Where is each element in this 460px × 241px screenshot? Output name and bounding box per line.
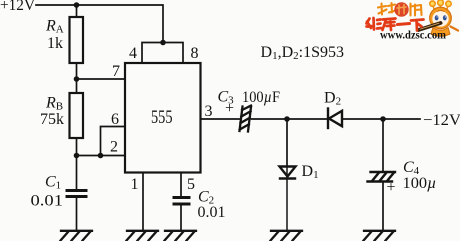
- node D: pin2/pin6 junction: [98, 153, 104, 159]
- wire pin 7: [77, 78, 126, 80]
- svg-text:D2: D2: [324, 90, 341, 108]
- mascot head: [430, 7, 452, 29]
- node F: D1 tap junction: [284, 116, 290, 122]
- diode D1: [280, 167, 296, 179]
- wire +12V rail: [36, 5, 163, 42]
- svg-text:1: 1: [131, 176, 139, 193]
- wire RB to C1: [76, 138, 78, 189]
- red seal circle: [394, 2, 408, 16]
- watermark dzsc logo: [367, 0, 459, 41]
- mascot crown: [430, 0, 451, 9]
- svg-text:7: 7: [112, 63, 120, 80]
- ground under C1: [61, 231, 93, 241]
- svg-text:100µF: 100µF: [242, 89, 280, 106]
- capacitor C4 (electrolytic, hatched): [368, 172, 396, 182]
- ground under D1: [271, 231, 303, 241]
- resistor RA: [70, 17, 84, 63]
- ground under pin 1: [127, 231, 159, 241]
- ku char (red): [383, 19, 396, 31]
- wire C4 to ground: [382, 183, 384, 231]
- svg-text:+12V: +12V: [0, 0, 36, 14]
- weiku char (red): [367, 18, 382, 30]
- svg-text:1k: 1k: [47, 35, 63, 52]
- wire node G to C4: [382, 119, 384, 172]
- wire pin 5 to C2: [180, 173, 182, 197]
- svg-text:75k: 75k: [40, 111, 64, 128]
- ground under C2: [165, 231, 197, 241]
- svg-text:+: +: [387, 179, 396, 196]
- svg-text:5: 5: [187, 176, 195, 193]
- svg-text:www.dzsc.com: www.dzsc.com: [380, 28, 446, 42]
- svg-text:RA: RA: [45, 18, 64, 36]
- wire D2 to -12V: [343, 118, 421, 120]
- zhao glyph (orange): [378, 3, 396, 15]
- wire pin 2: [77, 155, 126, 157]
- svg-text:4: 4: [129, 45, 137, 62]
- wire pin 3 output: [201, 118, 241, 120]
- svg-text:RB: RB: [45, 95, 63, 113]
- svg-text:6: 6: [111, 111, 119, 128]
- pian glyph (orange): [411, 4, 422, 16]
- mascot body: [431, 28, 450, 37]
- svg-text:3: 3: [205, 103, 213, 120]
- diode D2: [328, 109, 342, 129]
- mascot telescope: [419, 23, 441, 30]
- wire D1 to ground: [286, 167, 288, 231]
- svg-text:D1,D2:1S953: D1,D2:1S953: [261, 44, 344, 62]
- svg-text:100µ: 100µ: [403, 175, 437, 192]
- node G: C4 tap junction: [380, 116, 386, 122]
- wire C2 to ground: [180, 205, 182, 230]
- yi char (red): [398, 24, 410, 25]
- wire rail to RA: [76, 5, 78, 17]
- node C: RB/C1/pin2 junction: [74, 153, 80, 159]
- wire pin 1 to ground: [142, 173, 144, 230]
- svg-text:D1: D1: [302, 163, 319, 181]
- node B: RA/RB/pin7 junction: [74, 76, 80, 82]
- capacitor C2: [174, 198, 189, 205]
- capacitor C1: [67, 191, 86, 197]
- wire pin 6: [101, 127, 126, 156]
- wire pins 4-8 bracket: [142, 43, 183, 64]
- svg-text:+: +: [225, 100, 234, 117]
- svg-text:0.01: 0.01: [198, 204, 226, 221]
- node E: bracket / rail junction: [160, 40, 166, 46]
- node A: rail / RA junction: [74, 2, 80, 8]
- wire node F to D1: [286, 119, 288, 167]
- resistor RB: [70, 93, 84, 138]
- wire C1 to ground: [76, 198, 78, 230]
- ground under C4: [364, 231, 396, 241]
- op IC 555 body: [125, 63, 201, 173]
- wire C3 to D2: [252, 118, 328, 120]
- svg-text:C1: C1: [45, 174, 61, 192]
- capacitor C3 (electrolytic, hatched): [240, 106, 252, 132]
- svg-text:555: 555: [151, 107, 173, 128]
- svg-text:0.01: 0.01: [31, 193, 64, 210]
- svg-text:8: 8: [191, 45, 199, 62]
- svg-text:2: 2: [110, 139, 118, 156]
- svg-text:−12V: −12V: [423, 112, 460, 129]
- xia char (red): [411, 20, 424, 31]
- wire RA to RB: [76, 63, 78, 93]
